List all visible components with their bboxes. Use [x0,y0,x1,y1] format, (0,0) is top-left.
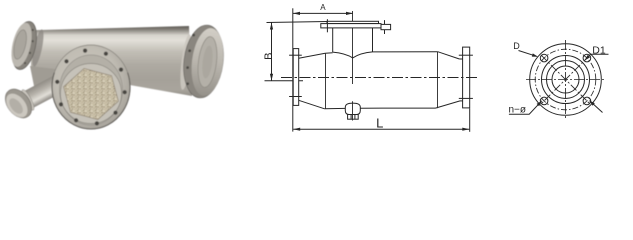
main centerline [281,77,478,79]
photo: right flange [180,23,228,100]
right flange bolt bottom [459,97,473,99]
right body flange [463,47,470,108]
arrow L left [293,128,300,131]
arrow A left [293,12,300,15]
branch flange nut right [381,24,391,29]
right cone bottom [436,101,461,108]
right neck top [459,58,462,60]
bolt hole bottom-right [583,97,591,105]
branch flange bolt right [384,20,386,34]
arrow of D1 leader [585,55,590,61]
branch flange raised face [327,21,379,23]
arrow of D leader [532,53,538,56]
right cone top [438,52,460,59]
svg-text:A: A [320,3,326,12]
left body flange [293,49,299,106]
arrow of n-phi leader [537,101,542,107]
photo: underside filler between pipe and nozzle [30,66,68,90]
raised face circle [542,56,590,104]
photo: blowdown nozzle [20,74,64,112]
branch pipe wall right [372,28,374,52]
branch flange plate [321,24,381,28]
photo: right flange collar [178,34,194,91]
bolt hole top-left [540,54,548,62]
dimension B extension top [267,22,328,23]
photo: blowdown nozzle end flange [0,84,37,123]
photo: main pipe body [31,26,192,96]
svg-text:D: D [513,41,520,51]
bolt hole bottom-left [540,97,548,105]
arrow A right [346,12,353,15]
pipe OD circle [547,61,585,99]
barrel bottom line left of drain [324,107,345,109]
leader n-phi [509,101,542,114]
photo: left flange [7,19,40,72]
left weld seam [325,53,327,108]
extension line right (L) [469,109,471,132]
diagonal centerline TL-BR [541,55,590,104]
arrow B bottom [270,74,273,81]
bolt hole top-right [583,54,591,62]
barrel top line left of branch [325,52,333,54]
branch centerline [352,11,354,84]
branch-body saddle curve [333,52,373,58]
photo: front flange with strainer mesh [52,45,130,129]
leader D [519,51,537,57]
horizontal centerline [526,79,606,81]
barrel bottom line right of drain [360,107,435,109]
arrow B top [270,23,273,30]
dimension L line [293,128,469,130]
bolt circle (dash-dot) [535,49,596,110]
left flange bolt top [289,54,302,56]
left cone top [299,53,326,58]
extension line left (A/L) [292,8,294,131]
barrel top line right of branch [373,51,438,53]
photo: left flange collar shadow [30,29,46,68]
branch flange bolt left [326,19,328,32]
svg-text:B: B [263,53,275,60]
diagonal centerline TR-BL [541,55,590,104]
dimension A line [293,12,353,14]
flange OD circle [530,44,602,116]
right flange bolt top [459,54,473,56]
svg-text:D1: D1 [592,44,606,56]
dimension B line [271,22,273,80]
dimension B extension bottom [265,80,304,82]
pipe bore circle [552,66,579,93]
svg-text:n−ø: n−ø [509,105,527,116]
leader bottom-right bolt hole [590,101,603,113]
branch pipe wall left [332,28,334,52]
svg-text:L: L [376,115,383,130]
left flange bolt bottom [289,96,302,98]
drain boss [345,103,360,114]
drain hex plug [348,115,359,120]
drain centerline [352,101,354,120]
leader D1 [585,54,609,60]
right neck bottom [460,100,463,102]
right weld seam [437,52,439,108]
arrow of bottom-right leader [589,100,595,105]
vertical centerline [565,40,567,120]
left cone bottom [299,100,325,108]
arrow L right [462,128,469,131]
